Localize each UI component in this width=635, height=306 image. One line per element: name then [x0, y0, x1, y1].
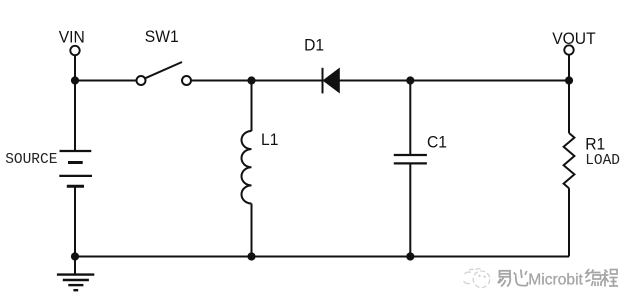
svg-text:LOAD: LOAD	[585, 153, 620, 169]
svg-text:SW1: SW1	[145, 28, 179, 47]
wire ground stem	[74, 257, 76, 275]
node L1 bottom junction dot	[247, 252, 255, 260]
node VIN junction dot	[71, 76, 79, 84]
terminal VIN circle	[70, 46, 79, 55]
wire C1 bottom lead	[409, 163, 411, 256]
battery SOURCE	[59, 151, 92, 186]
node L1 top junction dot	[247, 76, 255, 84]
wire R1 bottom lead	[568, 188, 570, 256]
resistor R1 zigzag	[564, 133, 575, 188]
wire bottom rail	[75, 256, 569, 258]
watermark text 编	[586, 269, 602, 286]
wire L1 top lead	[251, 81, 253, 132]
node ground junction dot	[71, 252, 79, 260]
wire top rail left: VIN node to switch	[75, 80, 137, 82]
inductor L1 coil	[241, 131, 251, 204]
svg-text:VOUT: VOUT	[552, 29, 595, 48]
svg-text:D1: D1	[304, 36, 324, 55]
node C1 top junction dot	[406, 76, 414, 84]
terminal VOUT circle	[564, 45, 573, 54]
wire VIN terminal drop	[74, 56, 76, 81]
svg-text:Microbit: Microbit	[528, 272, 583, 289]
wire battery top lead	[74, 81, 76, 152]
wire top rail mid: switch to diode	[191, 80, 322, 82]
ground	[57, 275, 94, 291]
svg-text:R1: R1	[585, 135, 605, 154]
switch SW1	[137, 62, 192, 85]
watermark text 易	[498, 271, 511, 287]
svg-text:SOURCE: SOURCE	[5, 152, 57, 168]
diode D1	[323, 68, 340, 94]
wire VOUT terminal drop	[568, 55, 570, 80]
wire battery bottom lead	[74, 186, 76, 256]
node C1 bottom junction dot	[406, 252, 414, 260]
watermark logo icon	[464, 269, 490, 288]
svg-text:VIN: VIN	[59, 28, 85, 47]
wire R1 top lead	[568, 81, 570, 134]
svg-text:L1: L1	[261, 130, 278, 149]
svg-text:C1: C1	[427, 133, 447, 152]
watermark text 程	[602, 270, 619, 287]
capacitor C1 plates	[394, 155, 427, 163]
wire top rail right: diode to VOUT node	[339, 80, 569, 82]
node VOUT junction dot	[565, 76, 573, 84]
wire L1 bottom lead	[251, 204, 253, 257]
wire C1 top lead	[409, 81, 411, 156]
watermark text 心	[514, 270, 528, 286]
